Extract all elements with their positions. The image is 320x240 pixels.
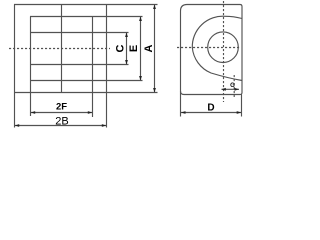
svg-text:2B: 2B [55, 116, 68, 128]
svg-text:A: A [143, 44, 155, 52]
svg-text:G: G [230, 83, 235, 89]
svg-text:D: D [207, 102, 214, 113]
svg-text:2F: 2F [56, 102, 67, 113]
svg-text:C: C [115, 44, 127, 52]
svg-text:E: E [128, 45, 140, 52]
